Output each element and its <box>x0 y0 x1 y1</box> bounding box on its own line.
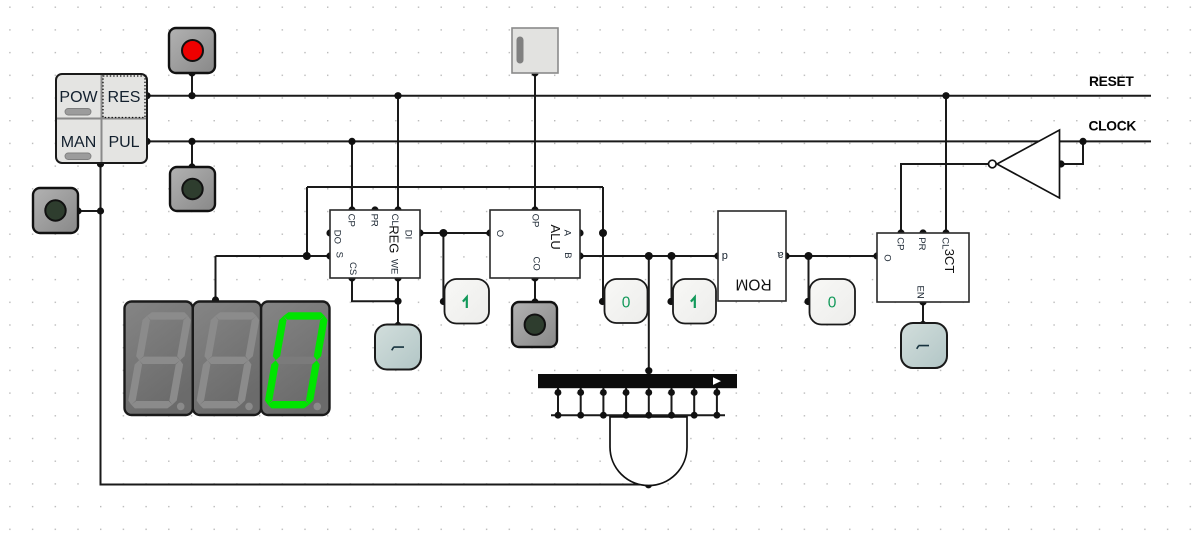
AND gate U6 <box>610 417 687 486</box>
junction B net 0b <box>805 252 813 260</box>
wire B net ALU to 3CT O <box>580 255 877 257</box>
wire bus stub 5 <box>648 388 650 415</box>
bus stub dots top <box>555 389 562 396</box>
junction on CLOCK at x352 <box>348 138 355 145</box>
pin display input <box>212 296 219 303</box>
wire inverter out to 3CT CP <box>901 164 988 233</box>
pin 3CT PR <box>919 229 926 236</box>
inverter U5 <box>989 130 1060 198</box>
pin inverter input <box>1057 160 1064 167</box>
wire B net to bus bar <box>648 256 650 374</box>
digit 3 showing 0 <box>264 312 329 410</box>
pin REG CL <box>394 206 401 213</box>
register REG U1 <box>330 210 420 278</box>
svg-text:DO: DO <box>331 230 342 244</box>
wire 3CT EN to const <box>922 302 924 325</box>
wire RESET to 3CT CL <box>945 96 947 233</box>
value box 1b <box>673 279 716 324</box>
svg-text:a: a <box>777 249 784 261</box>
wire bus stub 7 <box>693 388 695 415</box>
junction CS WE <box>394 298 401 305</box>
svg-text:CLOCK: CLOCK <box>1089 119 1137 134</box>
wire RESET net <box>147 95 1151 97</box>
svg-text:DI: DI <box>403 230 414 240</box>
pin panel RES <box>143 92 150 99</box>
svg-text:3CT: 3CT <box>942 249 957 274</box>
wire RESET to REG CL <box>397 96 399 210</box>
junction on RESET at x398 <box>394 92 401 99</box>
pin REG CP <box>348 206 355 213</box>
pin REG DI <box>416 229 423 236</box>
push-button green B (MAN) <box>33 188 78 233</box>
pin REG WE <box>394 274 401 281</box>
pin const L1 <box>394 322 401 329</box>
counter 3CT U4 <box>877 233 969 302</box>
pin const L2 <box>919 321 926 328</box>
svg-text:REG: REG <box>387 225 402 253</box>
wire bus stub 1 <box>557 388 559 415</box>
junction on RESET at x946 <box>942 92 949 99</box>
svg-text:d: d <box>722 250 728 262</box>
wire CLOCK to REG CP <box>351 141 353 210</box>
svg-text:ROM: ROM <box>735 276 771 293</box>
wire bus stub 6 <box>671 388 673 415</box>
svg-text:RESET: RESET <box>1089 74 1134 89</box>
svg-text:ALU: ALU <box>548 225 563 250</box>
wire green button A to CLOCK <box>191 141 193 167</box>
pin ALU OP <box>531 206 538 213</box>
svg-text:CP: CP <box>346 214 357 227</box>
pin dark button CO <box>531 298 538 305</box>
junction B net 1b <box>668 252 676 260</box>
pin value 0a <box>599 298 606 305</box>
pin 3CT CL <box>942 229 949 236</box>
pin 3CT CP <box>897 229 904 236</box>
push-button green A (PULSE) <box>170 167 215 211</box>
bus bar (LED strip) <box>538 374 737 388</box>
pin REG DO <box>326 229 333 236</box>
switch S1 <box>512 28 558 73</box>
digit 1 unlit <box>127 312 192 410</box>
pin green button B <box>74 207 81 214</box>
pin REG S <box>326 252 333 259</box>
wire bus stub 4 <box>625 388 627 415</box>
ALU U2 <box>490 210 580 278</box>
wire B net to value 0b <box>808 256 810 302</box>
pin panel bottom <box>97 160 104 167</box>
junction A net <box>599 229 607 237</box>
seven segment display DS1 <box>125 302 330 416</box>
svg-text:PUL: PUL <box>108 134 139 151</box>
pin ALU A <box>576 229 583 236</box>
wire switch to ALU OP <box>534 73 536 210</box>
junction S net <box>303 252 311 260</box>
svg-text:B: B <box>562 252 573 258</box>
svg-text:CL: CL <box>389 214 400 226</box>
wire red button to RESET <box>191 73 193 96</box>
pin 3CT EN <box>919 298 926 305</box>
junction green B node <box>97 207 104 214</box>
pin ROM A <box>782 252 789 259</box>
svg-text:A: A <box>562 230 573 237</box>
wire REG CS <box>352 278 398 301</box>
constant 1 box L2 (3CT EN) <box>901 323 947 368</box>
constant 1 box L1 (REG WE) <box>375 325 421 370</box>
junction on RESET at red button <box>188 92 195 99</box>
pin ALU CO <box>531 274 538 281</box>
svg-text:CP: CP <box>895 237 906 250</box>
pin ALU B <box>576 252 583 259</box>
value box 0b <box>810 279 856 325</box>
svg-text:MAN: MAN <box>61 134 97 151</box>
wire S net to REG S <box>216 255 331 257</box>
wire B net to value 1b <box>671 256 673 302</box>
wire S net to display <box>215 256 217 301</box>
wire inverter input from CLOCK <box>1060 141 1084 164</box>
wire bus stub 8 <box>716 388 718 415</box>
svg-text:CL: CL <box>939 237 950 249</box>
wire S net left vertical <box>306 187 308 256</box>
pin ALU O <box>486 229 493 236</box>
pin panel PUL <box>143 138 150 145</box>
pin value 0b <box>804 298 811 305</box>
pin switch <box>531 69 538 76</box>
wire bus stub 3 <box>602 388 604 415</box>
wire green button B to node <box>78 210 101 212</box>
junction on CLOCK at inverter input <box>1079 138 1086 145</box>
svg-text:PR: PR <box>916 237 927 250</box>
wire S net top <box>307 186 603 188</box>
wire CLOCK net <box>147 140 1151 142</box>
wire bus bottom rail <box>551 414 725 416</box>
junction DI net <box>439 229 447 237</box>
value box 1a <box>445 279 490 324</box>
svg-text:EN: EN <box>915 285 926 298</box>
svg-text:S: S <box>334 252 345 258</box>
pin REG PR <box>371 206 378 213</box>
pin green button A <box>188 163 195 170</box>
svg-text:0: 0 <box>828 295 837 312</box>
svg-text:CO: CO <box>530 257 541 271</box>
svg-text:CS: CS <box>347 262 358 275</box>
wire ALU CO to button <box>534 278 536 302</box>
push-button dark (ALU CO) <box>512 302 557 347</box>
svg-text:WE: WE <box>389 259 400 274</box>
svg-text:OP: OP <box>530 214 541 228</box>
value box 0a <box>605 279 648 323</box>
pin value 1a <box>440 298 447 305</box>
junction B net bus <box>645 252 653 260</box>
pin red button <box>188 69 195 76</box>
wire node to value 1a <box>442 233 444 302</box>
svg-text:O: O <box>881 254 892 261</box>
pin bus input <box>645 367 652 374</box>
control panel POW/RES/MAN/PUL <box>56 74 147 163</box>
wire REG DI to ALU O <box>420 232 490 234</box>
pin value 1b <box>667 298 674 305</box>
wire bus stub 2 <box>580 388 582 415</box>
digit 2 unlit <box>195 312 260 410</box>
svg-text:PR: PR <box>369 214 380 227</box>
pin ROM P <box>714 252 721 259</box>
pin REG CS <box>348 274 355 281</box>
svg-text:0: 0 <box>622 295 631 312</box>
ROM U3 <box>718 211 786 301</box>
pin 3CT O <box>873 252 880 259</box>
wire panel bottom to AND output <box>101 163 649 485</box>
push-button red (RESET) <box>169 28 215 73</box>
svg-text:RES: RES <box>108 89 141 106</box>
wire REG WE to const <box>397 278 399 326</box>
wire S net right vertical to value 0a <box>602 187 604 302</box>
svg-text:POW: POW <box>59 89 98 106</box>
svg-text:O: O <box>494 230 505 237</box>
pin AND output <box>645 481 652 488</box>
bus stub dots bottom <box>555 412 562 419</box>
junction on CLOCK at green A <box>188 138 195 145</box>
